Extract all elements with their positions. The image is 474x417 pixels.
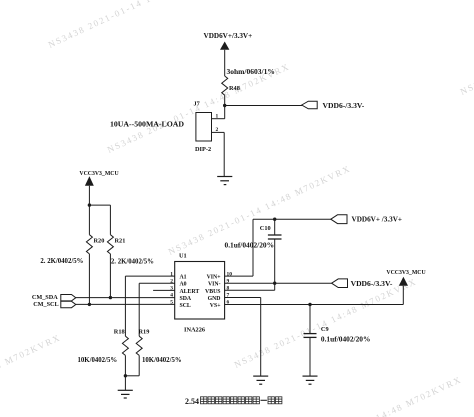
wire VS+ pin6	[225, 286, 404, 305]
svg-text:2: 2	[216, 127, 219, 133]
svg-text:R48: R48	[229, 85, 240, 92]
svg-text:2. 2K/0402/5%: 2. 2K/0402/5%	[40, 258, 83, 265]
resistor R48	[222, 76, 228, 95]
pin name A1	[180, 275, 187, 281]
pin 1 wire	[212, 118, 225, 120]
svg-text:2: 2	[170, 279, 173, 285]
port VDD6V+/3.3V+ (mid)	[331, 215, 347, 224]
label CM_SDA	[32, 294, 58, 301]
label VCC3V3_MCU (left)	[79, 171, 119, 177]
pin name SDA	[180, 296, 192, 302]
wire	[88, 254, 90, 305]
svg-text:10K/0402/5%: 10K/0402/5%	[78, 357, 118, 364]
label VDD6V+/3.3V+ (top)	[204, 32, 253, 40]
svg-text:A1: A1	[180, 275, 187, 281]
capacitor C10	[268, 219, 282, 290]
label CM_SCL	[33, 301, 58, 308]
capacitor C9	[304, 305, 317, 377]
node junction	[223, 104, 226, 107]
svg-text:10: 10	[227, 271, 233, 277]
node junction	[308, 303, 311, 306]
resistor R19	[136, 336, 142, 355]
port CM_SDA	[61, 295, 76, 301]
svg-text:SCL: SCL	[180, 303, 191, 309]
resistor R20	[86, 235, 92, 254]
svg-text:U1: U1	[179, 252, 187, 259]
label INA226	[184, 326, 205, 333]
node junction	[88, 203, 91, 206]
connector J7	[196, 113, 212, 142]
node junction	[124, 374, 127, 377]
svg-text:0.1uf/0402/20%: 0.1uf/0402/20%	[321, 335, 370, 344]
label U1	[179, 252, 187, 259]
svg-text:VCC3V3_MCU: VCC3V3_MCU	[79, 171, 119, 177]
svg-text:C9: C9	[321, 326, 329, 333]
svg-text:7: 7	[227, 293, 230, 299]
svg-text:VDD6-/3.3V-: VDD6-/3.3V-	[351, 279, 393, 288]
svg-text:R21: R21	[115, 238, 126, 245]
label C9 value	[321, 335, 370, 344]
pin number 6	[227, 300, 230, 306]
label C10	[260, 225, 271, 232]
wire	[225, 105, 302, 107]
svg-text:R19: R19	[139, 329, 150, 336]
ground (under C9)	[303, 376, 318, 384]
label 2.2K left	[40, 258, 83, 265]
svg-text:R18: R18	[114, 329, 125, 336]
pin name VBUS	[205, 289, 220, 295]
wire VBUS pin8	[225, 289, 275, 291]
svg-text:10K/0402/5%: 10K/0402/5%	[142, 357, 182, 364]
label J7	[194, 100, 200, 107]
svg-text:9: 9	[227, 279, 230, 285]
svg-text:A0: A0	[180, 282, 187, 288]
svg-text:VS+: VS+	[210, 303, 221, 309]
svg-text:4: 4	[170, 293, 173, 299]
svg-text:VCC3V3_MCU: VCC3V3_MCU	[386, 270, 426, 276]
wire A0	[139, 283, 175, 336]
watermark line 3	[167, 163, 353, 257]
label DIP-2	[195, 146, 211, 153]
label pin1	[216, 114, 219, 120]
label VDD6-/3.3V- (mid port)	[351, 279, 393, 288]
label R20	[94, 238, 105, 245]
label C9	[321, 326, 329, 333]
pin number 9	[227, 279, 230, 285]
op-amp U1 INA226 box	[175, 262, 225, 320]
wire VIN+ pin10	[225, 219, 331, 276]
svg-text:VDD6-/3.3V-: VDD6-/3.3V-	[323, 101, 365, 110]
svg-text:3: 3	[170, 286, 173, 292]
watermark line 7	[278, 374, 464, 417]
label VDD6-/3.3V- (top port)	[323, 101, 365, 110]
label VDD6V+/3.3V+ (mid port)	[352, 216, 403, 224]
pin number 10	[227, 271, 233, 277]
power VDD6V+/3.3V+	[220, 42, 229, 77]
pin name GND	[208, 296, 221, 302]
watermark line 1	[47, 0, 233, 50]
svg-text:2.54: 2.54	[185, 397, 199, 406]
ground (under J7)	[217, 177, 232, 185]
label R19	[139, 329, 150, 336]
label 3ohm/0603/1%	[227, 67, 275, 76]
label 10K right	[142, 357, 182, 364]
power VCC3V3_MCU (right)	[399, 277, 408, 286]
label title 2.54 pitch header current-sense load (CJK simulated)	[185, 397, 282, 406]
ground (under GND pin wire)	[253, 376, 268, 384]
label C10 value	[225, 240, 274, 249]
label 10K left	[78, 357, 118, 364]
svg-text:10UA--500MA-LOAD: 10UA--500MA-LOAD	[110, 120, 184, 129]
label 2.2K right	[111, 259, 154, 266]
port VDD6-/3.3V- (mid)	[332, 279, 348, 288]
resistor R18	[122, 336, 128, 355]
svg-text:1: 1	[170, 271, 173, 277]
wire A1	[125, 276, 174, 336]
svg-text:INA226: INA226	[184, 326, 205, 333]
svg-text:VDD6V+/3.3V+: VDD6V+/3.3V+	[204, 32, 253, 40]
pin name ALERT	[180, 289, 200, 295]
svg-text:DIP-2: DIP-2	[195, 146, 211, 153]
svg-text:ALERT: ALERT	[180, 289, 200, 295]
label R48	[229, 85, 240, 92]
pin number 4	[170, 293, 173, 299]
label R21	[115, 238, 126, 245]
pin number 3	[170, 286, 173, 292]
wire	[124, 355, 126, 390]
svg-text:VBUS: VBUS	[205, 289, 220, 295]
svg-text:1: 1	[216, 114, 219, 120]
node junction	[88, 303, 91, 306]
pin name VS+	[210, 303, 221, 309]
node junction	[109, 296, 112, 299]
wire VIN- pin9	[225, 282, 332, 284]
svg-text:0.1uf/0402/20%: 0.1uf/0402/20%	[225, 240, 274, 249]
pin name VIN-	[208, 282, 221, 288]
pin number 7	[227, 293, 230, 299]
wire SDA	[76, 297, 175, 299]
pin number 8	[227, 286, 230, 292]
pin number 5	[170, 300, 173, 306]
label 10UA--500MA-LOAD	[110, 120, 184, 129]
wire	[224, 95, 226, 119]
wire	[125, 355, 139, 375]
wire	[89, 205, 110, 235]
wire GND pin7	[225, 298, 261, 377]
label VCC3V3_MCU (right)	[386, 270, 426, 276]
svg-text:CM_SCL: CM_SCL	[33, 301, 58, 308]
wire ALERT stub	[153, 289, 175, 291]
svg-text:J7: J7	[194, 100, 200, 107]
svg-text:5: 5	[170, 300, 173, 306]
svg-text:VIN-: VIN-	[208, 282, 221, 288]
svg-text:6: 6	[227, 300, 230, 306]
watermark line 5	[459, 3, 474, 97]
svg-text:2. 2K/0402/5%: 2. 2K/0402/5%	[111, 259, 154, 266]
watermark line 4	[233, 276, 419, 370]
svg-text:VIN+: VIN+	[207, 275, 221, 281]
pin number 1	[170, 271, 173, 277]
svg-text:3ohm/0603/1%: 3ohm/0603/1%	[227, 67, 275, 76]
pin name A0	[180, 282, 187, 288]
resistor R21	[107, 235, 113, 254]
pin 2 wire	[212, 132, 225, 176]
label R18	[114, 329, 125, 336]
svg-text:SDA: SDA	[180, 296, 192, 302]
pin number 2	[170, 279, 173, 285]
power VCC3V3_MCU (left)	[85, 176, 94, 234]
pin name VIN+	[207, 275, 221, 281]
svg-text:R20: R20	[94, 238, 105, 245]
watermark line 6	[0, 332, 62, 417]
svg-text:C10: C10	[260, 225, 271, 232]
wire SCL	[76, 303, 175, 305]
node junction	[273, 282, 276, 285]
port VDD6-/3.3V- (top)	[302, 101, 318, 109]
node junction	[273, 218, 276, 221]
label pin2	[216, 127, 219, 133]
pin name SCL	[180, 303, 191, 309]
svg-text:GND: GND	[208, 296, 221, 302]
svg-text:VDD6V+ /3.3V+: VDD6V+ /3.3V+	[352, 216, 403, 224]
ground (under R18/R19)	[118, 390, 133, 398]
watermark line 2	[106, 61, 292, 155]
port CM_SCL	[61, 301, 76, 307]
svg-text:CM_SDA: CM_SDA	[32, 294, 58, 301]
wire	[109, 254, 111, 298]
svg-text:8: 8	[227, 286, 230, 292]
